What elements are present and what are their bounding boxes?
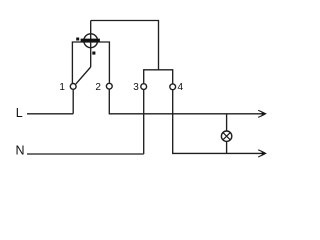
svg-text:N: N: [16, 143, 25, 157]
svg-text:L: L: [16, 106, 23, 120]
svg-text:4: 4: [178, 82, 184, 93]
svg-text:1: 1: [59, 82, 65, 93]
svg-text:3: 3: [133, 82, 139, 93]
svg-text:2: 2: [95, 82, 101, 93]
